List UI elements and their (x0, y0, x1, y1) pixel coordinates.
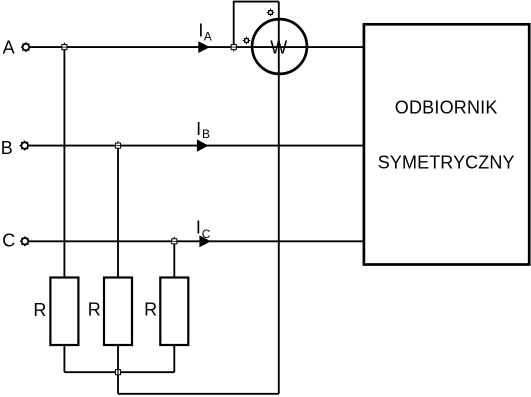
wire star rail (64, 371, 174, 373)
resistor R2 (104, 278, 132, 346)
svg-text:A: A (204, 30, 212, 44)
arrow IB (197, 139, 209, 151)
load box ODBIORNIK SYMETRYCZNY (364, 24, 529, 264)
wire star point down (117, 372, 119, 394)
wire R3 bottom lead (173, 345, 175, 372)
svg-text:A: A (3, 37, 15, 57)
svg-text:I: I (196, 218, 201, 238)
resistor R1 (50, 278, 78, 346)
wire phase A (29, 46, 364, 48)
wire A down to R1 (63, 47, 65, 277)
wire phase B (28, 145, 364, 147)
wire wattmeter voltage coil vertical (278, 2, 280, 394)
svg-text:C: C (202, 227, 211, 241)
label IA (198, 20, 211, 43)
wire voltage coil jumper top (233, 1, 279, 3)
svg-text:I: I (198, 20, 203, 40)
svg-text:I: I (196, 119, 201, 139)
svg-text:W: W (270, 38, 287, 58)
wattmeter W1 circle (252, 19, 307, 74)
svg-text:B: B (1, 138, 13, 158)
wire R1 bottom lead (63, 345, 65, 372)
terminal C (20, 236, 30, 246)
svg-text:C: C (2, 230, 15, 250)
junction B to R2 (114, 141, 123, 150)
junction A to wattmeter voltage coil (229, 43, 238, 52)
junction A to R1 (60, 43, 69, 52)
wire R2 bottom lead (117, 345, 119, 372)
wire voltage coil jumper up (233, 2, 235, 48)
svg-text:SYMETRYCZNY: SYMETRYCZNY (378, 152, 515, 172)
wire star point to voltage coil return (118, 393, 279, 395)
junction C to R3 (170, 237, 179, 246)
wire B down to R2 (117, 146, 119, 278)
wire C down to R3 (173, 241, 175, 277)
resistor R3 (160, 278, 188, 346)
svg-text:R: R (144, 300, 157, 320)
svg-text:R: R (88, 300, 101, 320)
arrow IC (199, 235, 211, 247)
arrow IA (198, 41, 210, 53)
wattmeter polarity marker voltage coil (267, 9, 275, 17)
svg-text:B: B (202, 127, 210, 141)
wattmeter polarity marker current coil (243, 37, 251, 45)
label IC (196, 218, 211, 241)
wire phase C (28, 240, 364, 242)
svg-text:ODBIORNIK: ODBIORNIK (395, 97, 498, 117)
svg-text:R: R (33, 300, 46, 320)
terminal A (21, 42, 31, 52)
junction star point N (114, 368, 123, 377)
terminal B (20, 141, 30, 151)
label IB (196, 119, 210, 141)
